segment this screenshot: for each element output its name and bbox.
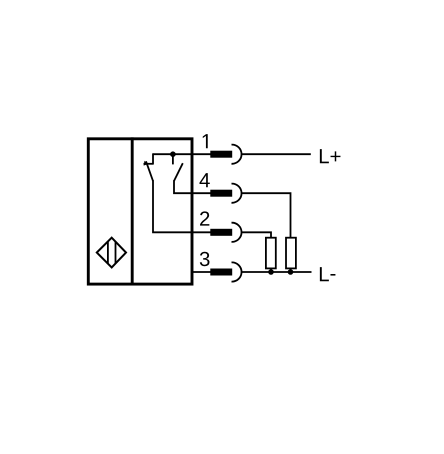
contact S1 left stub	[152, 153, 154, 163]
wire pin3 from body	[191, 271, 211, 273]
pin 3 label	[200, 252, 210, 266]
inductive sensor symbol diamond	[97, 238, 126, 268]
pin 1 connector arc	[232, 145, 242, 164]
contact S1 seat bar	[144, 163, 154, 165]
pin 1 label	[203, 134, 208, 148]
pin 4 label	[199, 173, 209, 187]
pin 3 connector arc	[232, 262, 242, 281]
diamond inner line right	[115, 242, 117, 263]
wire S2 to pin4	[174, 180, 211, 193]
wire R2 bottom stub	[290, 268, 292, 272]
pin 2 contact block	[210, 229, 232, 236]
contact S1 blade	[146, 161, 153, 181]
pin 3 contact block	[210, 269, 232, 276]
pin 1 contact block	[210, 151, 232, 158]
wire pin3 to L-	[241, 271, 311, 273]
contact S2 stub	[172, 154, 174, 164]
pin 4 contact block	[210, 190, 232, 197]
node junction dot R2/L-	[288, 269, 294, 275]
wire S1 to pin2	[153, 180, 211, 232]
contact S2 blade	[174, 163, 183, 181]
pin 2 connector arc	[232, 223, 242, 242]
resistor R1	[266, 238, 276, 269]
node junction dot on pin1 wire	[170, 151, 176, 157]
sensor body divider	[131, 137, 134, 284]
sensor body rectangle	[88, 139, 192, 284]
contact S1 arrowhead	[144, 161, 149, 166]
pin 4 connector arc	[232, 184, 242, 203]
wire pin1 to L+	[241, 153, 310, 155]
wire R1 bottom stub	[270, 268, 272, 272]
wire pin2 to resistor R1	[241, 232, 271, 237]
pin 2 label	[200, 211, 209, 225]
resistor R2	[286, 238, 296, 269]
diamond inner line left	[107, 242, 109, 264]
label L-	[320, 267, 329, 281]
label L+	[320, 149, 329, 163]
wire pin1 horizontal	[153, 153, 211, 155]
wire pin4 to resistor R2	[241, 193, 290, 238]
node junction dot R1/L-	[268, 269, 274, 275]
